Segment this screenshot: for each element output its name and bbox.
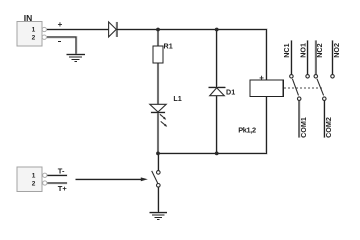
svg-text:NC1: NC1 xyxy=(282,43,291,57)
svg-text:T-: T- xyxy=(58,166,65,175)
svg-text:2: 2 xyxy=(32,180,36,187)
svg-text:COM2: COM2 xyxy=(324,117,333,138)
svg-text:+: + xyxy=(58,20,63,29)
svg-text:R1: R1 xyxy=(164,42,173,51)
svg-text:NO1: NO1 xyxy=(298,43,307,58)
svg-text:IN: IN xyxy=(24,13,33,23)
svg-text:D1: D1 xyxy=(226,87,235,96)
svg-text:L1: L1 xyxy=(173,94,181,103)
svg-text:NC2: NC2 xyxy=(315,43,324,57)
svg-text:1: 1 xyxy=(32,172,36,179)
svg-text:COM1: COM1 xyxy=(299,117,308,138)
svg-text:2: 2 xyxy=(32,35,36,42)
svg-text:Pk1,2: Pk1,2 xyxy=(238,126,256,135)
svg-text:+: + xyxy=(259,73,264,82)
svg-text:1: 1 xyxy=(32,26,36,33)
svg-text:T+: T+ xyxy=(58,184,68,193)
svg-text:NO2: NO2 xyxy=(332,43,341,58)
